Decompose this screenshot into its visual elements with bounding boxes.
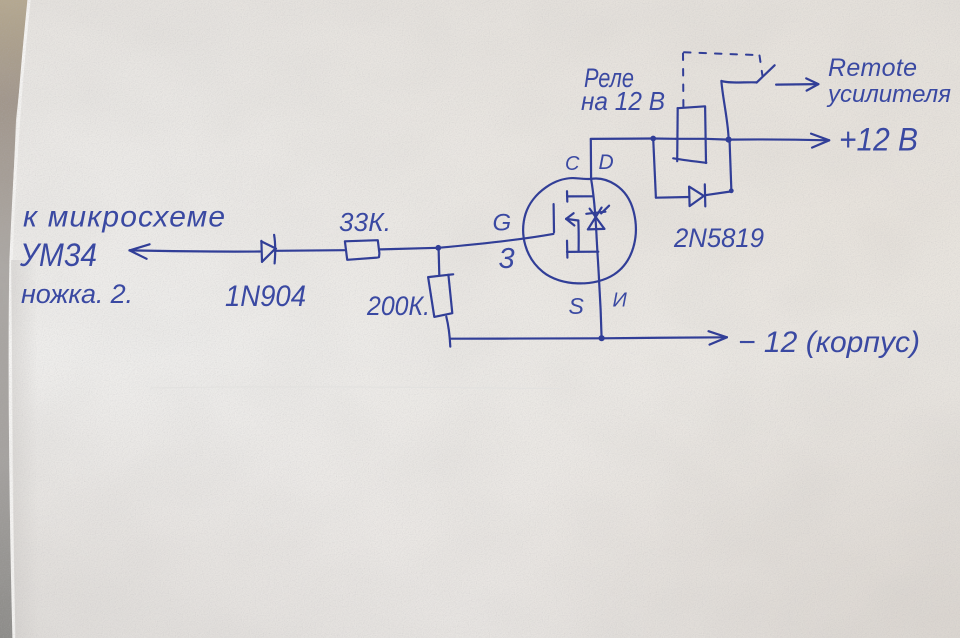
svg-text:200К.: 200К.	[366, 291, 430, 321]
svg-text:+12 В: +12 В	[839, 122, 918, 158]
svg-text:И: И	[613, 290, 628, 312]
svg-text:D: D	[599, 151, 614, 174]
svg-text:УМ34: УМ34	[19, 237, 97, 273]
svg-text:2N5819: 2N5819	[673, 223, 764, 253]
svg-text:усилителя: усилителя	[826, 81, 951, 108]
svg-text:G: G	[493, 210, 512, 237]
svg-text:3: 3	[499, 243, 515, 275]
svg-text:S: S	[569, 293, 585, 319]
svg-text:− 12 (корпус): − 12 (корпус)	[738, 326, 920, 359]
svg-text:33К.: 33К.	[339, 207, 391, 237]
svg-text:к микросхеме: к микросхеме	[23, 201, 225, 234]
svg-text:C: C	[565, 153, 580, 175]
svg-text:Remote: Remote	[828, 54, 917, 82]
svg-text:на 12 В: на 12 В	[581, 86, 665, 116]
svg-text:ножка. 2.: ножка. 2.	[21, 279, 133, 309]
svg-text:1N904: 1N904	[225, 280, 306, 313]
